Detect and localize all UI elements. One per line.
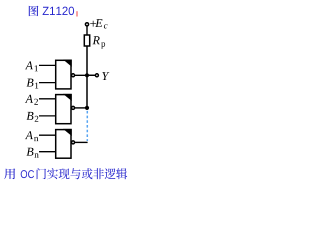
- gate G2 corner triangle: [63, 94, 72, 101]
- label A2 subscript: [34, 99, 38, 105]
- red cursor tick: [76, 11, 78, 16]
- title text 图: [29, 6, 39, 16]
- label B1 letter: [27, 79, 34, 87]
- input wire B1: [39, 82, 56, 84]
- label Y: [102, 72, 109, 80]
- label Ec subscript c: [104, 24, 108, 28]
- caption 门实现与或非逻辑: [37, 168, 128, 179]
- input wire Bn: [39, 151, 56, 153]
- label Bn letter: [27, 148, 34, 156]
- label Bn subscript: [35, 153, 39, 157]
- wire terminal to resistor: [86, 26, 88, 36]
- label B2 letter: [27, 112, 34, 120]
- OC NAND gate G2 body: [56, 95, 71, 124]
- output wire gate G3: [75, 141, 88, 143]
- gate G2 output bubble: [72, 106, 75, 109]
- title text Z1120: [43, 7, 75, 16]
- label Ec E: [95, 19, 102, 27]
- bus continuation dashed: [86, 111, 88, 141]
- label Rp subscript p: [101, 42, 105, 48]
- wire node Y to gate2 output node: [86, 75, 88, 108]
- junction dot at node Y: [85, 73, 89, 77]
- label A1 subscript: [35, 65, 38, 71]
- label An subscript: [34, 137, 38, 141]
- output wire gate G2: [75, 107, 87, 109]
- output terminal circle Y: [95, 74, 98, 77]
- label B1 subscript: [35, 83, 38, 89]
- caption 用: [4, 168, 15, 179]
- resistor Rp body: [84, 35, 89, 46]
- input wire A1: [39, 64, 56, 66]
- gate G3 corner triangle: [63, 129, 72, 136]
- input wire An: [39, 134, 56, 136]
- label A1 letter: [25, 61, 33, 69]
- label Rp R: [93, 36, 100, 44]
- junction dot gate2 output: [85, 106, 89, 110]
- power terminal circle: [85, 23, 88, 26]
- OC NAND gate G3 body: [56, 130, 71, 159]
- label B2 subscript: [35, 116, 39, 122]
- label An letter: [25, 131, 33, 139]
- gate G3 output bubble: [72, 141, 75, 144]
- gate G1 corner triangle: [63, 60, 72, 67]
- label +Ec plus: [90, 21, 96, 27]
- caption OC: [21, 170, 34, 178]
- input wire B2: [39, 115, 56, 117]
- label A2 letter: [25, 95, 33, 103]
- OC NAND gate G1 body: [56, 60, 71, 89]
- gate G1 output bubble: [72, 74, 75, 77]
- input wire A2: [39, 98, 56, 100]
- wire resistor to node Y: [86, 46, 88, 75]
- output wire gate G1: [75, 74, 96, 76]
- wire junction to Y terminal: [87, 74, 95, 76]
